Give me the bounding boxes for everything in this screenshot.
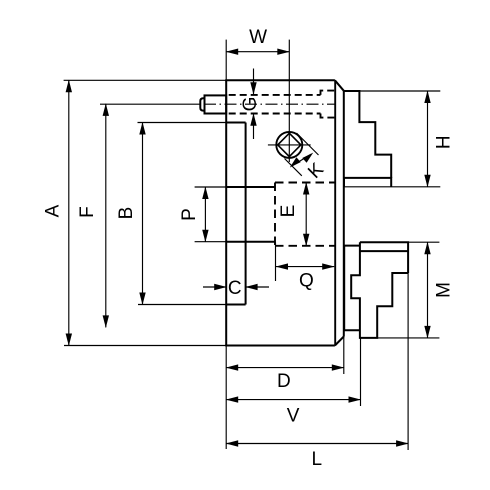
mounting pin cap xyxy=(200,98,204,110)
body top edge xyxy=(225,79,335,81)
A bottom extension line xyxy=(64,345,226,347)
top jaw block outline xyxy=(344,91,391,178)
dimension Q xyxy=(276,266,334,268)
K lower tangent line xyxy=(285,159,302,176)
A top extension line xyxy=(64,79,227,81)
svg-text:L: L xyxy=(312,449,323,470)
hidden front bore left edge xyxy=(274,183,276,246)
mounting pin body xyxy=(205,95,227,113)
hidden hole lower edge xyxy=(229,113,321,115)
dimension M xyxy=(427,242,429,338)
key socket horizontal centre line xyxy=(268,144,311,146)
L right extension line xyxy=(407,273,409,450)
B bottom extension line xyxy=(138,304,226,306)
dimension V xyxy=(226,399,360,401)
operating key square xyxy=(278,133,301,156)
V right extension line xyxy=(360,338,362,406)
hidden hole upper edge xyxy=(229,94,321,96)
dimension H xyxy=(427,91,429,187)
P top extension line xyxy=(195,186,227,188)
left bottom extension line xyxy=(225,346,227,450)
svg-text:C: C xyxy=(228,278,242,299)
svg-text:G: G xyxy=(240,97,261,112)
dimension W xyxy=(226,51,289,53)
dimension L xyxy=(226,443,408,445)
svg-text:V: V xyxy=(287,406,300,427)
dimension C left arrow xyxy=(203,286,226,288)
B top extension line xyxy=(138,122,227,124)
svg-text:E: E xyxy=(278,205,299,218)
bottom jaw top strip xyxy=(360,242,408,273)
svg-text:Q: Q xyxy=(299,271,314,292)
chamfer depth line xyxy=(334,81,336,346)
body front face line xyxy=(343,91,345,337)
back recess edge xyxy=(245,123,247,305)
pin centre line xyxy=(204,103,335,105)
svg-text:H: H xyxy=(433,135,454,149)
top jaw slide strip xyxy=(344,178,391,187)
bottom jaw slide strip xyxy=(344,246,360,331)
svg-text:A: A xyxy=(42,204,63,217)
dimension B xyxy=(142,123,144,305)
F extension line (pin centre) xyxy=(100,103,200,105)
M top extension line xyxy=(408,241,439,243)
svg-text:W: W xyxy=(249,27,267,48)
svg-text:D: D xyxy=(277,371,291,392)
body bottom edge xyxy=(225,345,335,347)
svg-text:B: B xyxy=(116,207,137,220)
svg-text:K: K xyxy=(304,159,328,183)
M bottom extension line xyxy=(377,337,439,339)
dimension K arrow lower xyxy=(290,157,301,167)
dimension F xyxy=(105,104,107,328)
dimension K arrow upper xyxy=(302,153,313,163)
dimension C right arrow xyxy=(246,286,269,288)
dimension G top arrow xyxy=(253,69,255,95)
dimension G bottom arrow xyxy=(253,114,255,139)
central bore lower edge xyxy=(226,241,275,243)
body back edge xyxy=(225,80,227,345)
dimension E xyxy=(305,183,307,246)
svg-text:P: P xyxy=(179,208,200,221)
H bottom extension line xyxy=(344,186,440,188)
hidden front bore top edge xyxy=(275,182,335,184)
dimension K shaft xyxy=(292,154,311,166)
dimension P xyxy=(204,187,206,242)
recess bottom edge xyxy=(226,304,245,306)
K upper tangent line xyxy=(297,133,319,155)
hidden hole upper counterbore step xyxy=(321,91,335,95)
D right extension line xyxy=(343,337,345,375)
operating key socket circle xyxy=(276,132,302,158)
recess top edge xyxy=(226,122,245,124)
key socket vertical centre line / W extension xyxy=(288,40,290,162)
bottom jaw block outline xyxy=(351,242,408,338)
dimension A xyxy=(68,80,70,345)
svg-text:M: M xyxy=(433,282,454,298)
hidden hole lower counterbore step xyxy=(321,114,335,118)
central bore upper edge xyxy=(226,186,275,188)
body top-right chamfer xyxy=(335,80,344,91)
P bottom extension line xyxy=(195,241,227,243)
W left extension line xyxy=(225,40,227,81)
H top extension line xyxy=(359,90,440,92)
hidden front bore bottom edge xyxy=(275,245,335,247)
Q left extension line xyxy=(275,243,277,282)
body bottom-right chamfer xyxy=(335,337,344,346)
dimension D xyxy=(226,367,344,369)
svg-text:F: F xyxy=(77,206,98,218)
